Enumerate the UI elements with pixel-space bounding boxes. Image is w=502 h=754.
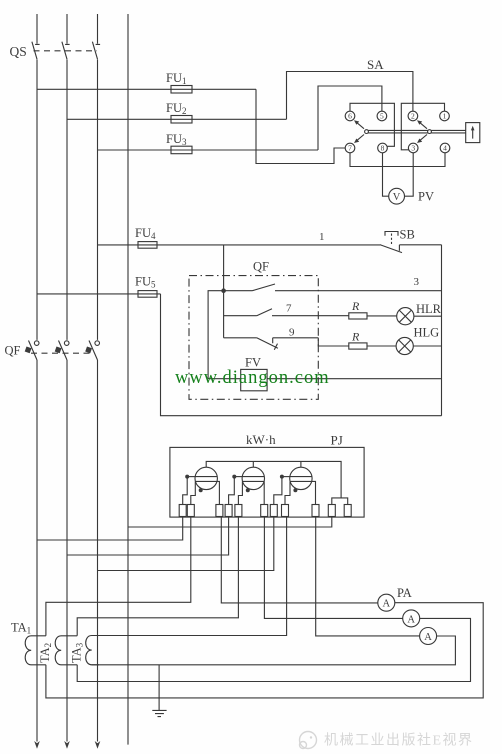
wire element3 current-out to ammeter 3: [316, 517, 420, 636]
SA switch contact 4: [440, 143, 450, 153]
wire element3 voltage lead: [274, 477, 282, 505]
wire right rail control: [441, 245, 443, 416]
ground symbol: [152, 710, 166, 716]
svg-text:3: 3: [411, 144, 415, 153]
svg-text:1: 1: [319, 231, 325, 243]
arrow phase1 outgoing: [34, 741, 40, 749]
wire TA3 to meter current-in: [92, 517, 287, 636]
wire FU2 row: [67, 118, 287, 120]
meter element 1 coil: [195, 467, 217, 489]
svg-text:QS: QS: [10, 44, 27, 59]
QF aux contact row7: [224, 309, 349, 316]
meter element 3 coil: [290, 461, 312, 489]
breaker QF pole 1: [25, 341, 39, 361]
ammeter A3: [420, 628, 437, 645]
SA switch contact 2: [408, 111, 418, 121]
arrow phase3 outgoing: [95, 741, 101, 749]
QF aux contact row9 NC: [224, 338, 319, 350]
svg-text:A: A: [424, 632, 432, 643]
voltmeter PV: [389, 188, 405, 204]
label TA2: [38, 643, 53, 663]
current transformer TA2: [55, 636, 77, 665]
wire ground drop: [158, 665, 160, 711]
surge protector FV box: [241, 369, 267, 390]
wire element1 current-out lead: [217, 481, 219, 504]
wire element3 current-in lead: [285, 481, 290, 504]
svg-text:7: 7: [286, 303, 292, 315]
wire meter voltage bus: [206, 461, 341, 498]
wire ammeter2 return to TA2: [77, 618, 470, 681]
svg-text:R: R: [351, 330, 360, 344]
wire FU5 row: [37, 293, 161, 295]
current transformer TA3: [86, 636, 99, 665]
wire phase2 voltage tap: [67, 517, 229, 556]
wire phase L1 bus: [36, 14, 38, 742]
SA switch contact 6: [345, 111, 355, 121]
meter element 2 polarity dot upper: [232, 475, 242, 479]
svg-text:A: A: [407, 614, 415, 625]
wire phase3 voltage tap: [98, 517, 274, 571]
breaker QF pole 3: [85, 341, 99, 361]
wire element1 current-in lead: [191, 481, 196, 504]
ammeter A1: [378, 594, 395, 611]
wire FU3 row: [98, 149, 319, 151]
SA handle arrow to 3: [417, 135, 427, 144]
svg-text:TA2: TA2: [38, 643, 53, 663]
current transformer TA1: [25, 636, 46, 665]
wire element2 current-in lead: [238, 481, 242, 504]
QF linkage dashed: [31, 352, 93, 354]
meter element 3 polarity dot lower: [293, 488, 297, 492]
svg-text:R: R: [351, 299, 360, 313]
wire SA contact 8 to PV: [383, 153, 389, 196]
wire element2 current-out lead: [263, 481, 265, 504]
label TA3: [70, 642, 85, 663]
ammeter A2: [403, 610, 420, 627]
wire ammeter1 return to TA1: [46, 603, 483, 698]
svg-text:V: V: [393, 192, 401, 203]
svg-text:PV: PV: [418, 190, 434, 204]
svg-text:机械工业出版社E视界: 机械工业出版社E视界: [324, 733, 474, 749]
QS linkage dashed: [34, 50, 98, 52]
wire element1 current-out to ammeter 1: [221, 517, 377, 603]
wire neutral N bus: [127, 14, 129, 745]
lamp HLR: [397, 308, 442, 325]
resistor R row7: [349, 313, 397, 319]
fuse FU5: [138, 291, 157, 298]
svg-text:2: 2: [411, 112, 415, 121]
kWh meter box PJ: [170, 447, 364, 517]
meter element 2 polarity dot lower: [246, 488, 250, 492]
wire element2 current-out to ammeter 2: [264, 517, 402, 619]
svg-text:TA1: TA1: [11, 621, 31, 636]
SA switch contact 3: [408, 143, 418, 153]
wire neutral bracket: [332, 498, 348, 505]
svg-text:A: A: [383, 599, 391, 610]
wire FU1 to SA contact 7: [256, 89, 345, 163]
SA handle end box: [466, 123, 480, 143]
switch QS pole 2: [62, 42, 70, 60]
wire phase L3 bus: [97, 14, 99, 742]
svg-text:SB: SB: [400, 228, 415, 242]
wire TA1 to meter current-in: [46, 517, 191, 636]
wire FU5 drop to bottom rail: [161, 294, 442, 416]
meter element 2 coil: [242, 461, 264, 489]
wire row 3: [275, 290, 442, 292]
wire SA contact 3 to PV: [405, 153, 414, 196]
svg-text:QF: QF: [253, 260, 269, 274]
svg-text:1: 1: [443, 112, 447, 121]
svg-text:FU1: FU1: [166, 71, 186, 86]
wire FU4 row: [98, 244, 381, 246]
wire element1 voltage lead: [183, 477, 188, 505]
svg-text:PJ: PJ: [331, 433, 343, 448]
pushbutton SB: [380, 232, 442, 253]
lamp HLG: [396, 337, 441, 354]
node junction dot: [221, 288, 226, 293]
fuse FU1: [171, 86, 192, 94]
wire SA bottom bracket 7-4: [350, 153, 445, 167]
QF dash-dot enclosure: [189, 276, 318, 400]
SA switch contact 7: [345, 143, 355, 153]
svg-text:kW·h: kW·h: [246, 432, 276, 447]
svg-text:5: 5: [380, 112, 384, 121]
wire FU3 to SA contact 5: [318, 86, 382, 150]
svg-text:7: 7: [348, 144, 352, 153]
svg-text:6: 6: [348, 112, 352, 121]
wire ammeter3 return to TA3: [92, 636, 456, 665]
fuse FU2: [171, 116, 192, 124]
resistor R row9: [349, 343, 396, 349]
svg-text:www.diangon.com: www.diangon.com: [175, 368, 330, 388]
wire SA bracket 1-3: [401, 103, 444, 150]
wire FU2 to SA contact 2: [287, 72, 413, 120]
meter terminal studs: [179, 505, 351, 517]
svg-text:FU5: FU5: [135, 275, 156, 290]
wire element2 voltage lead: [229, 477, 235, 505]
svg-text:9: 9: [289, 327, 295, 339]
svg-text:HLR: HLR: [416, 302, 442, 316]
SA handle arrow to 6: [354, 120, 364, 129]
breaker QF pole 2: [55, 341, 69, 361]
SA switch contact 1: [440, 111, 450, 121]
watermark publisher logo: [300, 732, 317, 749]
SA handle arrow to 7: [354, 135, 364, 144]
wire row9 jog: [318, 338, 349, 346]
svg-text:3: 3: [414, 276, 420, 288]
svg-text:TA3: TA3: [70, 642, 85, 663]
meter element 3 polarity dot upper: [280, 475, 290, 479]
wire FV row: [208, 378, 441, 380]
fuse FU4: [138, 242, 157, 249]
wire TA2 to meter current-in: [77, 517, 238, 636]
meter element 1 polarity dot lower: [199, 488, 203, 492]
svg-text:FU2: FU2: [166, 101, 186, 116]
QF feeder vertical with junction: [223, 245, 225, 338]
svg-text:FU4: FU4: [135, 226, 156, 241]
svg-text:HLG: HLG: [414, 326, 440, 340]
QF aux contact row1: [224, 284, 275, 291]
svg-text:FU3: FU3: [166, 132, 187, 147]
wire element3 current-out lead: [312, 481, 316, 504]
switch QS pole 1: [32, 42, 40, 60]
fuse FU3: [171, 146, 192, 154]
wire FU1 row: [37, 88, 256, 90]
meter element 1 polarity dot upper: [185, 475, 195, 479]
SA handle bar: [365, 130, 466, 134]
wire phase1 voltage tap: [37, 517, 183, 541]
svg-text:QF: QF: [5, 344, 21, 358]
wire SA bracket 6-8: [350, 103, 394, 146]
svg-text:SA: SA: [367, 57, 384, 72]
switch QS pole 3: [92, 42, 100, 60]
wire phase L2 bus: [66, 14, 68, 742]
wire row1 left stub to FV drop: [208, 291, 224, 379]
svg-text:PA: PA: [397, 586, 412, 600]
svg-text:8: 8: [381, 144, 385, 153]
arrow phase2 outgoing: [64, 741, 70, 749]
svg-text:4: 4: [443, 144, 447, 153]
wire neutral tap: [128, 517, 332, 528]
SA handle arrow to 2: [417, 120, 427, 129]
SA switch contact 5: [377, 111, 387, 121]
SA switch contact 8: [378, 143, 388, 153]
